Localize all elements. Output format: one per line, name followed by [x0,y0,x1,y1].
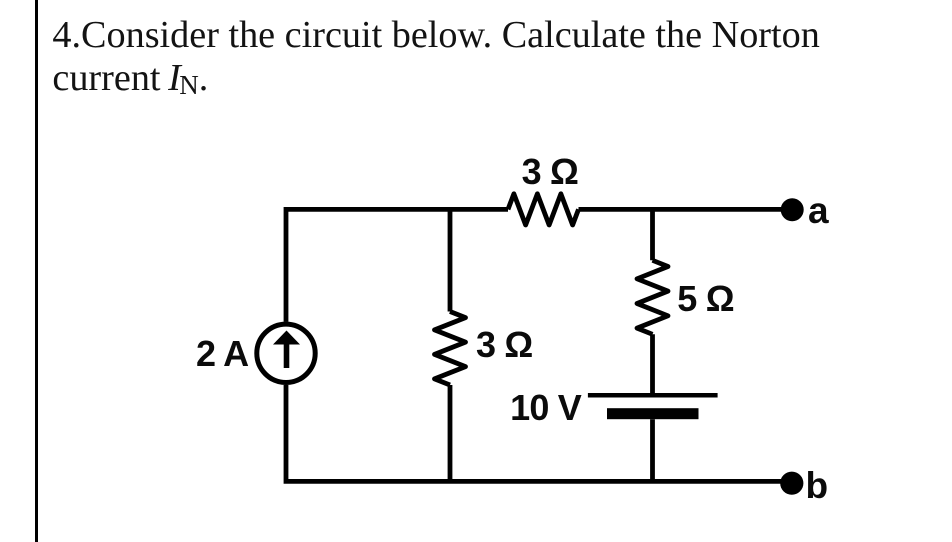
wire: right branch below battery [650,419,655,481]
resistor 3ohm horizontal zigzag (top) [508,194,579,225]
wire: middle branch upper segment [448,209,453,311]
current source arrow head [273,331,300,345]
terminal node a dot [781,198,804,221]
wire: right branch between 5ohm resistor and battery [650,334,655,393]
label: terminal a [808,192,829,229]
terminal node b dot [780,472,803,495]
label: 3 ohm (top resistor value) [522,154,579,190]
label: terminal b [806,467,829,504]
label: 3 ohm (middle resistor value) [476,327,533,363]
problem statement text [52,14,819,103]
wire: top-left corner (top wire left segment + left branch upper segment) [286,209,508,322]
page left border rule [35,0,38,542]
wire: middle branch lower segment [448,385,453,481]
wire: top wire right segment to terminal a [579,207,793,212]
current source I1 circle [257,324,315,382]
current source arrow (up) shaft [284,344,290,368]
resistor 5ohm vertical zigzag [637,260,668,334]
wire: right branch upper segment [650,209,655,260]
wire: left branch lower segment + bottom wire to terminal b [286,385,792,482]
battery V1 positive plate (long thin) [588,393,718,397]
resistor 3ohm vertical zigzag (middle) [435,312,466,386]
label: 5 ohm (right resistor value) [677,281,734,317]
label: 2 A (current source value) [196,336,248,372]
battery V1 negative plate (short thick) [607,408,699,419]
label: 10 V (battery value) [510,390,581,426]
